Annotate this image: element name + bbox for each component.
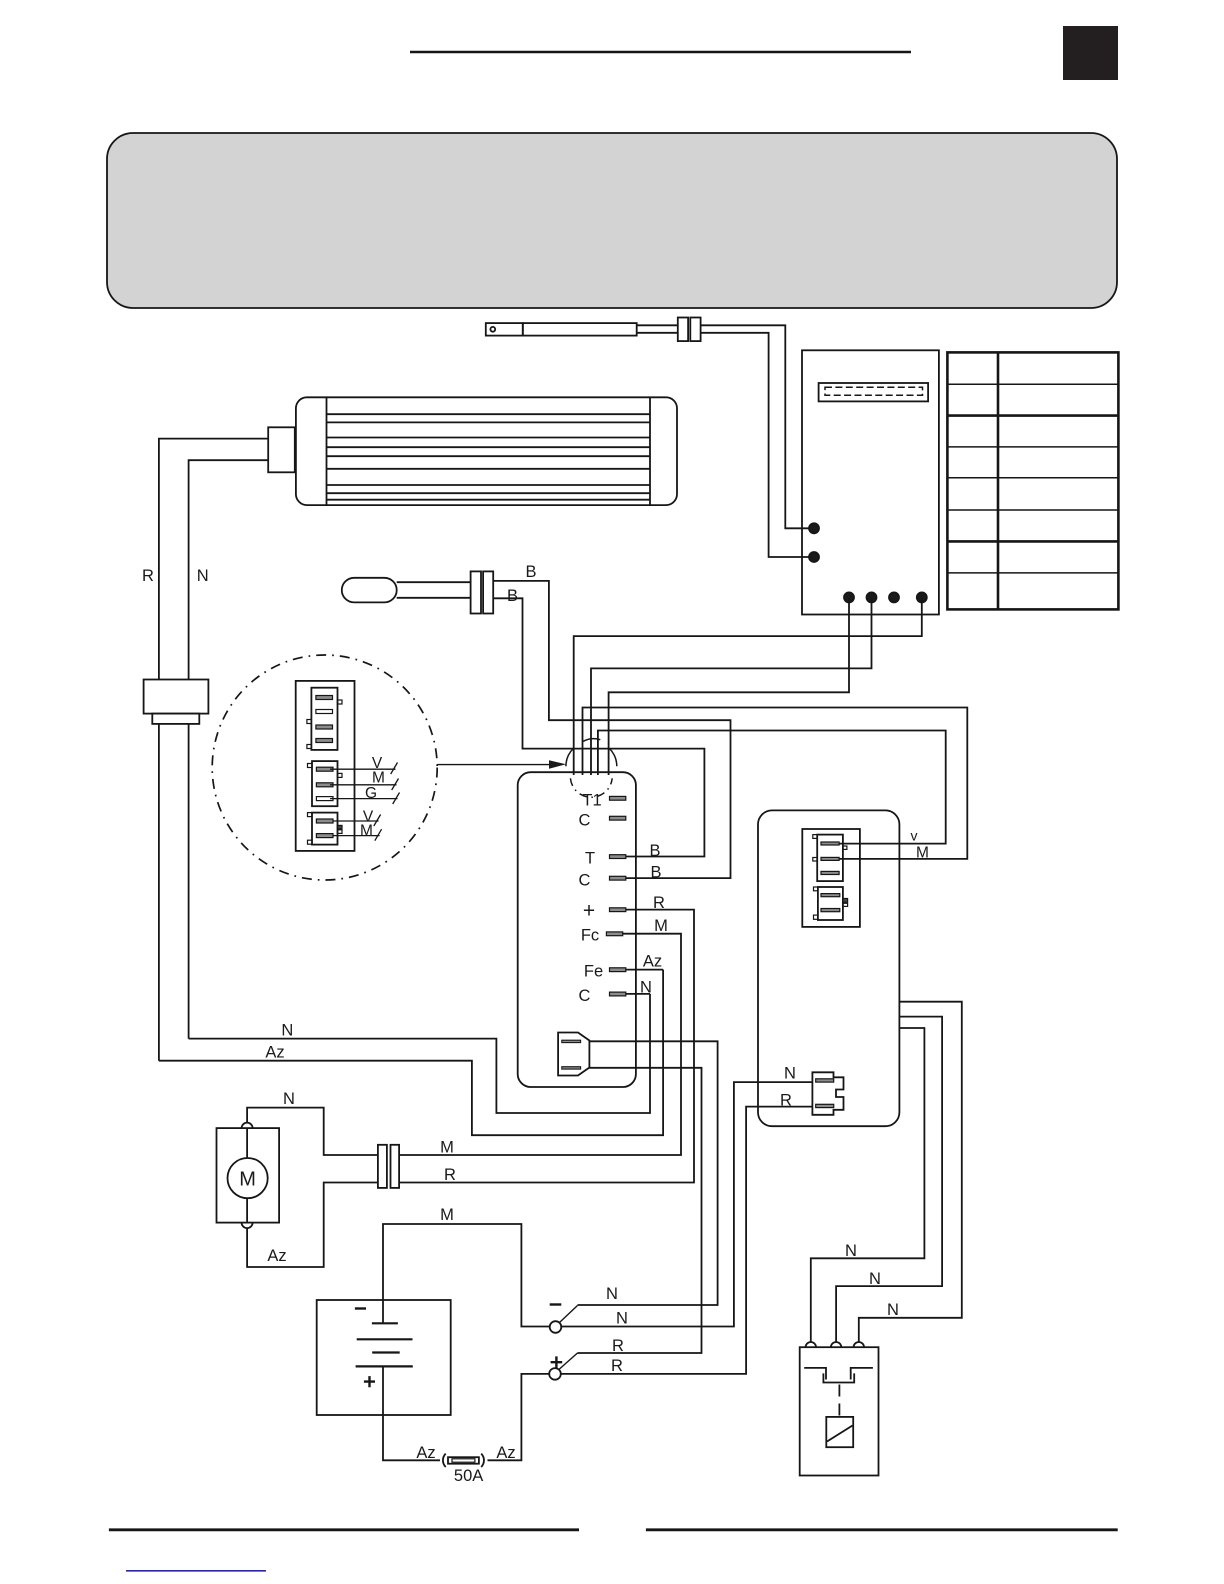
CNA slot 1 xyxy=(821,842,839,845)
panel terminal dot lower-left xyxy=(809,552,819,562)
CN2 right tab xyxy=(338,773,343,777)
wire Az Fe pin right xyxy=(626,969,663,971)
panel bottom dot 4 xyxy=(917,592,927,602)
CN1 left tab a xyxy=(307,720,312,724)
pin Fe xyxy=(610,968,626,972)
svg-text:N: N xyxy=(281,1022,293,1040)
table row line 6/7 (thick) xyxy=(947,540,1118,543)
wire fuse to plus switch xyxy=(488,1374,550,1460)
CNB right tab a xyxy=(843,899,848,903)
CNA left tab a xyxy=(813,835,817,839)
grommet right arc xyxy=(609,748,617,766)
title rule xyxy=(410,51,911,54)
pin C3 xyxy=(610,992,626,996)
CN2 wire G xyxy=(330,798,398,800)
CNA right tab xyxy=(843,846,847,849)
wire M loop over units xyxy=(583,708,968,859)
legend table xyxy=(947,352,1118,609)
thermostat connector bar 2 xyxy=(483,571,493,613)
CN2 slot 2 xyxy=(316,783,333,787)
CN2 slot 1 xyxy=(316,767,333,771)
svg-text:R: R xyxy=(611,1357,623,1375)
svg-text:C: C xyxy=(579,872,591,890)
plug slot bottom xyxy=(562,1067,581,1069)
control panel P1 xyxy=(802,350,939,614)
CNA slot 3 xyxy=(821,871,839,874)
wire R CN4 to plus switch xyxy=(561,1107,813,1374)
svg-text:Fe: Fe xyxy=(584,963,603,981)
motor internal lead top xyxy=(246,1128,248,1158)
CN2 wire V cut mark xyxy=(391,763,398,775)
wire M Fc pin down xyxy=(399,934,681,1155)
svg-text:N: N xyxy=(784,1065,796,1083)
heater terminal block xyxy=(268,427,295,472)
motor internal lead bottom xyxy=(246,1198,248,1222)
wire battery plus to fuse xyxy=(383,1415,440,1460)
wire N1 right unit to relay terminal 1 xyxy=(811,1028,925,1342)
panel bottom dot 3 xyxy=(889,592,899,602)
battery plate short 1 xyxy=(372,1322,398,1324)
connector CN3 (2-way) xyxy=(312,813,338,845)
wire N C pin right xyxy=(626,993,650,995)
CN1 right tab xyxy=(338,700,343,704)
svg-text:T1: T1 xyxy=(582,792,601,810)
battery plus sign xyxy=(364,1376,375,1387)
table row line 1/2 xyxy=(947,383,1118,385)
wire N plug top to minus switch xyxy=(578,1041,718,1305)
svg-text:N: N xyxy=(606,1285,618,1303)
heater element E1 xyxy=(296,397,677,505)
motor M symbol circle xyxy=(228,1158,268,1198)
detail arrow head xyxy=(549,760,566,769)
sensor S1 mounting hole xyxy=(490,327,495,332)
svg-text:50A: 50A xyxy=(454,1467,483,1485)
page number black square xyxy=(1063,26,1118,80)
svg-text:N: N xyxy=(616,1310,628,1328)
grommet left arc xyxy=(566,748,574,766)
note box (grey rounded) xyxy=(107,133,1117,308)
detail arrow line xyxy=(437,764,553,766)
CN2 wire M cut mark xyxy=(392,779,399,791)
grommet bottom dashed arc xyxy=(570,778,612,797)
CN4 slot R xyxy=(816,1104,834,1107)
CN3 right tab a xyxy=(338,825,343,829)
CN1 slot 4 xyxy=(316,739,333,743)
svg-text:Az: Az xyxy=(496,1444,515,1462)
CN3 wire M cut mark xyxy=(375,829,382,841)
pin C2 xyxy=(610,876,626,880)
CN2 wire M xyxy=(330,784,397,786)
relay coil diagonal xyxy=(827,1426,853,1442)
svg-text:v: v xyxy=(911,828,918,844)
plus switch contact xyxy=(549,1368,561,1380)
CNB left tab b xyxy=(814,915,818,919)
CN3 left tab a xyxy=(308,813,313,817)
fuse body inner xyxy=(452,1459,475,1462)
motor terminal arc bottom xyxy=(242,1223,253,1229)
CNB left tab a xyxy=(814,887,818,891)
display window (dashed) xyxy=(825,387,923,395)
pin T xyxy=(610,855,626,859)
svg-text:M: M xyxy=(372,770,385,787)
minus sign at switch xyxy=(550,1303,562,1305)
relay terminal arc 3 xyxy=(854,1342,864,1347)
svg-text:M: M xyxy=(440,1139,454,1157)
wire N CN4 to minus switch xyxy=(561,1082,812,1326)
CN3 wire M xyxy=(333,835,380,837)
wire Az horizontal to Fe pin xyxy=(159,970,663,1136)
right unit connector housing xyxy=(802,829,860,927)
svg-text:Az: Az xyxy=(643,953,662,971)
svg-text:+: + xyxy=(583,900,595,923)
table row line 3/4 xyxy=(947,446,1118,448)
CN4 slot N xyxy=(816,1079,834,1082)
battery internal lead bottom xyxy=(382,1366,384,1415)
CNB slot 1 xyxy=(821,894,840,897)
svg-text:N: N xyxy=(845,1242,857,1260)
svg-text:M: M xyxy=(360,823,373,840)
relay K1 box xyxy=(800,1347,879,1475)
wire panel dot4 to harness xyxy=(574,597,922,775)
battery plate long 2 xyxy=(356,1365,413,1367)
table divider column xyxy=(997,352,1000,609)
svg-text:M: M xyxy=(239,1169,256,1191)
wire panel dot2 to harness xyxy=(591,597,872,775)
svg-text:B: B xyxy=(649,842,660,860)
svg-text:N: N xyxy=(197,567,209,585)
wire R junction down xyxy=(158,724,160,1061)
thermostat bulb xyxy=(342,578,397,603)
display bezel xyxy=(819,383,929,401)
table row line 4/5 xyxy=(947,477,1118,479)
svg-text:R: R xyxy=(612,1337,624,1355)
fuse left arc xyxy=(443,1454,446,1467)
table row line 5/6 xyxy=(947,509,1118,511)
svg-text:B: B xyxy=(525,563,536,581)
footer rule left xyxy=(109,1528,579,1531)
connector CNB (2-way) xyxy=(818,887,843,920)
CN1 slot 3 xyxy=(316,725,333,729)
relay coil xyxy=(826,1417,853,1447)
CNB slot 2 xyxy=(821,909,840,912)
battery internal lead top xyxy=(382,1300,384,1323)
main control unit U1 xyxy=(518,772,636,1087)
wire N3 right unit to relay terminal 3 xyxy=(859,1002,962,1342)
thermostat connector bar 1 xyxy=(471,571,481,613)
battery minus sign xyxy=(355,1307,366,1309)
wire panel dot1 to harness xyxy=(609,597,849,775)
svg-text:M: M xyxy=(916,845,929,862)
wire R plus pin down xyxy=(399,910,694,1183)
pin C1 xyxy=(610,816,626,820)
table row line 2/3 (thick) xyxy=(947,414,1118,417)
CN1 left tab b xyxy=(307,745,312,749)
svg-text:Az: Az xyxy=(265,1044,284,1062)
motor connector bar 1 xyxy=(378,1145,387,1188)
wire R plug bottom to plus switch xyxy=(578,1068,702,1353)
CN2 slot 3 xyxy=(316,797,333,801)
connector housing in detail xyxy=(296,681,355,851)
sensor connector bar 1 xyxy=(678,318,688,342)
svg-text:G: G xyxy=(365,785,377,802)
svg-text:M: M xyxy=(440,1206,454,1224)
fuse right arc xyxy=(481,1454,484,1467)
wire B2 thermostat to T pin xyxy=(493,598,704,856)
sensor lead pair xyxy=(637,324,678,326)
relay terminal arc 1 xyxy=(806,1342,816,1347)
CN2 left tab xyxy=(308,764,313,768)
battery plate short 2 xyxy=(372,1351,400,1353)
plug slot top xyxy=(562,1040,581,1042)
wire N junction down xyxy=(188,724,190,1039)
svg-text:B: B xyxy=(507,587,518,605)
svg-text:Fc: Fc xyxy=(581,927,599,945)
heater left cap line xyxy=(326,397,328,505)
plus switch blade xyxy=(559,1353,578,1369)
motor connector bar 2 xyxy=(391,1145,400,1188)
svg-text:Az: Az xyxy=(416,1444,435,1462)
grommet top small arc xyxy=(583,739,600,742)
relay armature cup xyxy=(823,1373,854,1382)
svg-text:Az: Az xyxy=(267,1247,286,1265)
svg-text:T: T xyxy=(585,850,595,868)
wire M battery to minus switch xyxy=(383,1224,550,1327)
wire sensor to panel lower xyxy=(701,333,814,557)
footer link line (blue) xyxy=(126,1570,266,1572)
connector CN1 (4-way) xyxy=(311,688,337,750)
svg-text:B: B xyxy=(650,864,661,882)
right unit plug CN4 xyxy=(812,1072,843,1115)
CN3 wire V cut mark xyxy=(374,815,381,827)
CN1 slot 2 xyxy=(316,710,333,714)
svg-text:N: N xyxy=(283,1090,295,1108)
svg-text:N: N xyxy=(869,1270,881,1288)
sensor S1 body xyxy=(486,323,523,336)
wire B1 thermostat to C pin xyxy=(493,581,730,878)
wire V loop over units xyxy=(598,731,946,844)
svg-text:N: N xyxy=(887,1301,899,1319)
wire R heater to junction xyxy=(159,439,268,680)
pin Fc xyxy=(606,932,622,936)
relay actuator dashed link xyxy=(838,1385,840,1417)
panel terminal dot upper-left xyxy=(809,523,819,533)
connector CNA (3-way) xyxy=(817,835,843,882)
svg-text:M: M xyxy=(654,917,668,935)
junction box J1 xyxy=(144,680,209,714)
panel bottom dot 2 xyxy=(867,592,877,602)
junction box lower part xyxy=(152,714,199,724)
heater right cap line xyxy=(649,397,651,505)
minus switch contact xyxy=(550,1321,562,1333)
sensor connector bar 2 xyxy=(690,318,700,342)
wire sensor to panel upper xyxy=(701,325,814,528)
CN3 slot 1 xyxy=(316,819,333,823)
CNB right tab b xyxy=(843,903,848,906)
svg-text:C: C xyxy=(579,987,591,1005)
svg-text:C: C xyxy=(579,812,591,830)
CN2 wire V xyxy=(330,768,396,770)
right unit U2 (gas valve unit) xyxy=(758,810,899,1126)
battery plate long 1 xyxy=(357,1338,413,1340)
pin T1 xyxy=(610,796,626,800)
CN3 slot 2 xyxy=(316,834,333,838)
CN3 right tab b xyxy=(338,830,343,834)
wire Az motor to connector xyxy=(247,1183,378,1268)
svg-text:R: R xyxy=(444,1166,456,1184)
table row line 7/8 xyxy=(947,572,1118,574)
relay contact right xyxy=(851,1368,873,1380)
svg-text:R: R xyxy=(142,567,154,585)
thermostat stem xyxy=(397,581,471,583)
sensor S1 probe xyxy=(523,323,637,336)
motor box xyxy=(217,1128,280,1223)
CN3 left tab b xyxy=(308,840,313,844)
panel bottom dot 1 xyxy=(844,592,854,602)
wire N motor to connector xyxy=(247,1108,378,1155)
minus switch blade xyxy=(560,1306,578,1323)
heater fins xyxy=(327,414,651,500)
CN2 wire G cut mark xyxy=(393,793,400,805)
CNA left tab b xyxy=(813,858,817,862)
pin plus xyxy=(610,908,626,912)
CN3 wire V xyxy=(333,820,379,822)
motor terminal arc top xyxy=(242,1123,253,1129)
relay contact left xyxy=(804,1368,826,1380)
relay terminal arc 2 xyxy=(831,1342,841,1347)
plus sign at switch xyxy=(551,1356,563,1368)
CN1 slot 1 xyxy=(316,696,333,700)
battery box xyxy=(317,1300,451,1415)
connector CN2 (3-way) xyxy=(312,761,338,806)
wire N2 right unit to relay terminal 2 xyxy=(836,1017,942,1342)
detail circle (dash-dot) xyxy=(212,655,437,880)
fuse body xyxy=(448,1457,479,1464)
wire N heater to junction xyxy=(189,460,269,679)
footer rule right xyxy=(646,1528,1118,1531)
CNA slot 2 xyxy=(821,857,839,860)
main unit plug xyxy=(558,1033,589,1076)
wire N horizontal to C pin xyxy=(189,994,650,1113)
